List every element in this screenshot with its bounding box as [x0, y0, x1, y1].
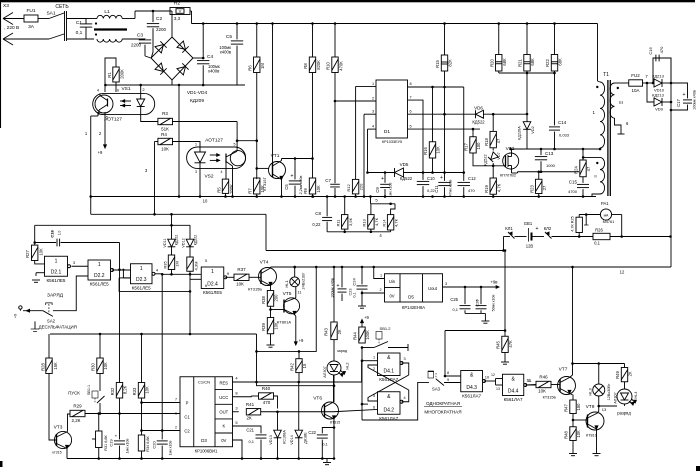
svg-text:3,9К: 3,9К: [348, 217, 353, 226]
svg-text:2: 2: [372, 97, 374, 101]
svg-text:OUT: OUT: [219, 410, 228, 415]
svg-text:R20: R20: [490, 58, 495, 66]
svg-text:1: 1: [211, 269, 214, 275]
svg-text:9: 9: [227, 271, 230, 276]
svg-text:КД226А: КД226А: [518, 126, 522, 140]
svg-text:L1: L1: [104, 9, 110, 15]
svg-text:R30: R30: [91, 362, 96, 370]
svg-text:&: &: [387, 355, 391, 361]
svg-text:470: 470: [263, 400, 271, 405]
svg-text:R2: R2: [174, 1, 180, 7]
svg-text:200К: 200К: [229, 184, 234, 194]
svg-text:R35: R35: [163, 261, 168, 269]
svg-text:470: 470: [468, 188, 475, 193]
svg-text:SA2: SA2: [47, 319, 56, 324]
svg-text:2200: 2200: [131, 43, 142, 48]
svg-text:VT6: VT6: [313, 396, 322, 402]
svg-text:1М: 1М: [175, 261, 180, 267]
svg-text:HL4: HL4: [634, 392, 638, 399]
svg-text:4,7К: 4,7К: [393, 218, 398, 227]
svg-text:R17: R17: [464, 142, 469, 150]
svg-text:VT1: VT1: [271, 153, 280, 159]
svg-text:КЛ2: КЛ2: [544, 226, 552, 231]
svg-text:VT3: VT3: [54, 425, 63, 431]
svg-text:200К: 200К: [120, 69, 125, 79]
svg-text:3А: 3А: [28, 24, 35, 30]
svg-text:68К: 68К: [558, 58, 563, 66]
svg-text:R46: R46: [539, 375, 548, 380]
svg-text:100: 100: [476, 142, 481, 150]
svg-text:C3: C3: [137, 33, 143, 39]
svg-text:0,1: 0,1: [452, 307, 458, 312]
svg-text:ДЕСУЛЬФАТАЦИЯ: ДЕСУЛЬФАТАЦИЯ: [39, 325, 77, 330]
svg-text:C9: C9: [375, 187, 380, 193]
svg-text:8: 8: [235, 391, 238, 396]
svg-text:АЛ307: АЛ307: [614, 392, 618, 403]
svg-text:ЗАРЯД: ЗАРЯД: [47, 293, 64, 299]
svg-text:1: 1: [85, 131, 88, 136]
svg-text:+9: +9: [98, 150, 103, 155]
svg-text:47мк х20в: 47мк х20в: [449, 180, 453, 197]
svg-text:кт315: кт315: [52, 451, 61, 455]
svg-text:VD14: VD14: [290, 435, 294, 445]
svg-text:R10: R10: [326, 61, 331, 69]
svg-text:КР1006ВИ1: КР1006ВИ1: [195, 449, 218, 454]
svg-text:R13: R13: [362, 219, 367, 227]
svg-text:+: +: [683, 92, 686, 98]
svg-text:UCC: UCC: [219, 395, 228, 400]
svg-text:V: V: [179, 9, 182, 14]
svg-text:5: 5: [106, 116, 108, 120]
svg-text:R3: R3: [162, 111, 168, 116]
svg-text:C25: C25: [450, 297, 458, 302]
svg-text:9: 9: [447, 378, 449, 382]
svg-text:13: 13: [496, 387, 500, 391]
svg-text:470К: 470К: [339, 61, 344, 71]
svg-text:R22: R22: [545, 58, 550, 66]
svg-text:4: 4: [156, 268, 159, 273]
svg-text:5: 5: [375, 198, 378, 203]
svg-text:SA1: SA1: [46, 11, 55, 17]
svg-text:R37: R37: [237, 267, 246, 272]
svg-text:R14: R14: [382, 220, 386, 227]
svg-text:C7: C7: [325, 178, 331, 183]
svg-text:6: 6: [409, 110, 411, 114]
svg-text:C19: C19: [109, 439, 114, 447]
svg-text:D2.2: D2.2: [94, 273, 105, 279]
svg-text:3: 3: [372, 110, 374, 114]
svg-text:3: 3: [73, 260, 76, 265]
svg-text:C1/CN: C1/CN: [198, 380, 210, 385]
svg-text:100К: 100К: [365, 330, 370, 340]
svg-text:R42: R42: [290, 362, 295, 370]
svg-text:VD6: VD6: [474, 106, 483, 111]
svg-text:27: 27: [542, 185, 547, 190]
svg-text:10К: 10К: [576, 430, 581, 438]
svg-text:2200: 2200: [156, 27, 167, 32]
svg-text:4: 4: [403, 396, 405, 400]
svg-text:К: К: [223, 424, 226, 429]
svg-text:КП707В2: КП707В2: [500, 174, 516, 178]
svg-text:4: 4: [235, 376, 238, 381]
svg-text:100мк х40в: 100мк х40в: [693, 90, 697, 110]
svg-text:0,033: 0,033: [559, 133, 570, 138]
svg-text:C4: C4: [207, 54, 213, 60]
svg-text:2К: 2К: [337, 329, 342, 334]
svg-text:C13: C13: [545, 151, 554, 156]
svg-text:х400в: х400в: [220, 50, 232, 55]
svg-text:C15: C15: [569, 180, 578, 185]
svg-text:HL2: HL2: [346, 363, 350, 370]
svg-text:VD2: VD2: [531, 126, 535, 133]
svg-text:D4.4: D4.4: [508, 389, 519, 395]
svg-text:К561ЛЕ5: К561ЛЕ5: [132, 285, 151, 290]
svg-text:М4761: М4761: [603, 220, 615, 224]
svg-text:0,1: 0,1: [594, 241, 600, 246]
svg-text:FU1: FU1: [26, 8, 35, 14]
svg-text:1: 1: [98, 262, 101, 268]
svg-text:5: 5: [205, 259, 207, 263]
svg-text:R16: R16: [423, 146, 428, 154]
svg-text:10К: 10К: [103, 362, 108, 370]
svg-text:II: II: [594, 174, 596, 179]
svg-text:4700: 4700: [568, 189, 578, 194]
svg-text:5: 5: [409, 125, 411, 129]
svg-text:10К: 10К: [236, 282, 244, 287]
svg-text:3,3: 3,3: [174, 16, 181, 21]
svg-text:2К: 2К: [246, 416, 252, 421]
svg-text:13: 13: [602, 407, 607, 412]
svg-text:КД522: КД522: [175, 235, 179, 246]
svg-text:7: 7: [409, 96, 411, 100]
svg-text:47К: 47К: [508, 340, 513, 348]
svg-text:0,1: 0,1: [76, 30, 83, 36]
svg-text:5: 5: [234, 143, 236, 147]
svg-text:SA3: SA3: [432, 387, 441, 392]
svg-text:47: 47: [496, 138, 501, 143]
svg-text:11: 11: [527, 378, 532, 383]
svg-text:C8: C8: [315, 211, 321, 216]
svg-text:R34 6,8К: R34 6,8К: [146, 435, 150, 451]
svg-text:C1: C1: [76, 20, 82, 26]
svg-text:R9: R9: [303, 188, 308, 194]
svg-text:1: 1: [373, 356, 375, 360]
svg-text:КД213: КД213: [652, 93, 664, 98]
svg-text:1: 1: [175, 412, 177, 416]
svg-text:VT9: VT9: [586, 404, 595, 410]
svg-text:4: 4: [372, 125, 374, 129]
svg-text:10: 10: [485, 375, 490, 380]
svg-text:1: 1: [372, 82, 374, 86]
svg-text:R6: R6: [248, 65, 253, 71]
svg-text:6: 6: [626, 121, 629, 126]
svg-text:+9: +9: [299, 338, 304, 343]
svg-text:КР142ЕН8А: КР142ЕН8А: [402, 305, 425, 310]
svg-text:HL1: HL1: [284, 280, 289, 288]
svg-text:КТ315Г: КТ315Г: [262, 176, 267, 190]
svg-text:R23: R23: [530, 184, 535, 192]
svg-text:ПУСК: ПУСК: [68, 391, 80, 396]
svg-text:470: 470: [659, 46, 664, 53]
svg-text:VD9: VD9: [655, 107, 664, 112]
svg-text:К561ЛЕ5: К561ЛЕ5: [47, 278, 66, 283]
svg-text:SB1:1: SB1:1: [87, 385, 91, 395]
svg-text:12: 12: [491, 373, 495, 377]
svg-text:4: 4: [221, 170, 223, 174]
svg-text:R12: R12: [346, 184, 351, 192]
svg-text:VT4: VT4: [260, 260, 269, 266]
svg-text:1: 1: [140, 266, 143, 272]
svg-text:0,22: 0,22: [312, 222, 321, 227]
svg-text:10К: 10К: [436, 146, 441, 154]
svg-text:+: +: [536, 226, 539, 232]
svg-text:VT7: VT7: [559, 367, 568, 373]
svg-text:+: +: [115, 434, 118, 439]
svg-text:D2.1: D2.1: [51, 269, 62, 275]
svg-text:2: 2: [99, 131, 102, 136]
svg-text:C5: C5: [226, 34, 232, 40]
svg-text:R27: R27: [25, 249, 30, 257]
svg-text:КД522: КД522: [472, 120, 485, 125]
svg-text:6: 6: [373, 406, 375, 410]
svg-text:R4: R4: [161, 132, 167, 137]
svg-text:D4.2: D4.2: [383, 407, 394, 413]
svg-text:КД522: КД522: [194, 235, 198, 246]
svg-text:8,2К: 8,2К: [123, 385, 128, 394]
svg-text:КТ801А: КТ801А: [277, 320, 291, 325]
svg-text:VD1-VD4: VD1-VD4: [187, 90, 208, 96]
svg-text:R26: R26: [595, 228, 603, 233]
svg-text:3: 3: [145, 168, 148, 173]
svg-text:ОДНОКРАТНАЯ: ОДНОКРАТНАЯ: [426, 401, 460, 406]
svg-text:1мк х10в: 1мк х10в: [126, 439, 130, 454]
svg-text:220: 220: [359, 183, 364, 190]
svg-text:C17: C17: [676, 98, 681, 106]
svg-text:50мк х10в: 50мк х10в: [492, 295, 496, 312]
svg-text:+: +: [476, 298, 479, 303]
svg-text:R38: R38: [261, 295, 266, 303]
svg-text:6: 6: [205, 284, 207, 288]
svg-text:VS1: VS1: [121, 86, 130, 92]
svg-text:3: 3: [235, 406, 238, 411]
svg-text:R5: R5: [217, 187, 222, 193]
svg-text:1мк х16в: 1мк х16в: [389, 183, 393, 198]
svg-text:заряд: заряд: [337, 349, 348, 353]
svg-text:82К: 82К: [448, 59, 453, 67]
svg-text:C22: C22: [308, 430, 316, 435]
svg-text:+: +: [291, 174, 294, 180]
svg-text:10К: 10К: [538, 389, 546, 394]
svg-text:разряд: разряд: [617, 411, 631, 416]
svg-text:HL3: HL3: [588, 388, 593, 396]
svg-text:C2: C2: [156, 16, 162, 22]
svg-text:КД209: КД209: [190, 98, 204, 104]
svg-text:КД213: КД213: [652, 74, 664, 79]
svg-text:R33: R33: [132, 387, 137, 395]
svg-text:VD13: VD13: [269, 435, 273, 445]
svg-text:3: 3: [403, 357, 405, 361]
svg-text:+9: +9: [14, 314, 18, 318]
svg-text:R1: R1: [107, 72, 112, 78]
svg-text:R29: R29: [73, 404, 82, 409]
svg-text:D5: D5: [408, 295, 414, 300]
svg-text:КД522: КД522: [484, 154, 488, 165]
svg-text:R21: R21: [518, 58, 523, 66]
svg-text:5: 5: [235, 420, 238, 425]
svg-text:СЕТЬ: СЕТЬ: [55, 4, 69, 10]
svg-text:C2: C2: [184, 429, 190, 434]
svg-text:1: 1: [592, 110, 595, 115]
svg-text:1: 1: [55, 258, 58, 264]
svg-text:D2.3: D2.3: [136, 277, 147, 283]
svg-text:C6: C6: [284, 184, 289, 190]
svg-text:10К: 10К: [39, 248, 44, 256]
svg-text:Uout: Uout: [428, 286, 438, 291]
svg-text:4,7К: 4,7К: [497, 183, 502, 192]
svg-text:&: &: [511, 376, 515, 382]
svg-text:КТ315: КТ315: [330, 421, 340, 425]
svg-text:МНОГОКРАТНАЯ: МНОГОКРАТНАЯ: [424, 410, 461, 415]
svg-text:R45: R45: [496, 340, 501, 348]
svg-text:RES: RES: [219, 381, 228, 386]
svg-text:6: 6: [117, 89, 119, 93]
svg-text:D4.1: D4.1: [383, 369, 394, 375]
svg-text:R31 6,8К: R31 6,8К: [104, 434, 108, 450]
svg-text:4: 4: [379, 233, 382, 238]
svg-text:12В: 12В: [526, 244, 534, 249]
svg-text:4,7К: 4,7К: [374, 217, 379, 226]
svg-text:VD12: VD12: [182, 238, 186, 248]
svg-text:GB1: GB1: [524, 221, 533, 226]
svg-text:+9в: +9в: [491, 280, 499, 285]
svg-text:R19: R19: [484, 184, 489, 192]
svg-text:150: 150: [576, 403, 581, 411]
svg-text:R44: R44: [353, 331, 358, 339]
svg-text:VD11: VD11: [163, 238, 167, 247]
svg-text:C11: C11: [434, 185, 439, 193]
svg-text:C21: C21: [246, 428, 254, 433]
svg-text:Т1: Т1: [603, 72, 609, 78]
svg-text:15К: 15К: [53, 362, 58, 370]
svg-text:АОТ127: АОТ127: [205, 138, 223, 144]
svg-text:R18: R18: [484, 137, 489, 145]
svg-text:АЛ307: АЛ307: [323, 366, 327, 377]
svg-text:1мк х10в: 1мк х10в: [169, 441, 173, 456]
svg-text:КЛ1: КЛ1: [505, 226, 513, 231]
svg-text:D4.3: D4.3: [466, 385, 477, 391]
svg-text:10К: 10К: [145, 386, 150, 394]
svg-text:К561ЛЕ5: К561ЛЕ5: [90, 282, 109, 287]
svg-text:&: &: [470, 373, 474, 379]
svg-text:КД522: КД522: [400, 176, 413, 181]
svg-text:+9: +9: [364, 315, 369, 320]
svg-text:10А: 10А: [631, 88, 639, 93]
svg-text:X3: X3: [3, 3, 9, 9]
svg-text:0,1: 0,1: [353, 292, 357, 297]
svg-text:D2.4: D2.4: [207, 282, 218, 288]
svg-text:C16: C16: [648, 47, 653, 55]
svg-text:+: +: [381, 176, 384, 182]
svg-text:2: 2: [175, 426, 177, 430]
svg-text:VD5: VD5: [400, 162, 409, 167]
svg-text:КР1033ЕУ5: КР1033ЕУ5: [382, 140, 402, 144]
svg-text:КТ315Б: КТ315Б: [543, 396, 557, 400]
svg-text:68К: 68К: [530, 58, 535, 66]
svg-text:10К: 10К: [161, 147, 169, 152]
svg-text:х400в: х400в: [208, 69, 220, 74]
svg-text:&: &: [387, 394, 391, 400]
svg-text:III: III: [619, 100, 623, 105]
svg-text:R43: R43: [324, 327, 329, 335]
svg-text:2: 2: [379, 288, 381, 292]
svg-text:4,3М: 4,3М: [194, 262, 199, 271]
svg-text:8: 8: [409, 82, 411, 86]
svg-text:D3: D3: [201, 438, 207, 443]
svg-text:12: 12: [620, 270, 625, 275]
svg-text:R24: R24: [574, 165, 579, 173]
svg-text:0,1: 0,1: [248, 439, 254, 444]
svg-text:7: 7: [175, 398, 177, 402]
svg-text:D1: D1: [384, 129, 390, 135]
svg-text:мА: мА: [604, 214, 609, 218]
svg-text:+: +: [440, 175, 443, 181]
svg-text:К561ЛА7: К561ЛА7: [379, 416, 398, 421]
svg-text:10: 10: [203, 199, 208, 204]
svg-text:2,2К: 2,2К: [72, 418, 81, 423]
svg-text:К561ЛЕ5: К561ЛЕ5: [203, 290, 222, 295]
svg-text:0,1: 0,1: [322, 442, 328, 447]
svg-text:7: 7: [645, 74, 648, 79]
svg-text:КС168А: КС168А: [283, 430, 287, 444]
svg-text:+: +: [337, 283, 340, 289]
svg-text:R39: R39: [261, 322, 266, 330]
svg-text:2К: 2К: [628, 371, 633, 376]
svg-text:C20: C20: [152, 441, 157, 449]
svg-text:R40: R40: [262, 386, 271, 391]
svg-text:1: 1: [195, 143, 197, 147]
svg-text:С18: С18: [50, 230, 55, 238]
svg-text:R49: R49: [615, 370, 620, 378]
svg-text:Д818Е: Д818Е: [304, 432, 308, 444]
svg-text:КТ315Б: КТ315Б: [248, 287, 262, 292]
svg-text:3: 3: [445, 282, 447, 286]
svg-text:R41: R41: [246, 402, 255, 407]
svg-text:4: 4: [97, 89, 99, 93]
svg-text:РА1: РА1: [601, 201, 609, 206]
svg-text:FU2: FU2: [631, 73, 640, 78]
svg-text:12Вх30Вт: 12Вх30Вт: [607, 383, 611, 400]
svg-text:VT5: VT5: [283, 291, 292, 297]
svg-text:C1: C1: [184, 415, 190, 420]
svg-text:8: 8: [447, 371, 449, 375]
svg-text:R11: R11: [336, 219, 341, 227]
svg-text:C14: C14: [558, 120, 567, 125]
svg-text:R8: R8: [303, 63, 308, 69]
svg-text:4,7К R25: 4,7К R25: [571, 216, 575, 232]
svg-text:С24: С24: [352, 278, 357, 286]
svg-text:68К: 68К: [502, 58, 507, 66]
svg-text:2: 2: [142, 87, 145, 92]
svg-text:, 220 В: , 220 В: [4, 25, 19, 31]
svg-text:47: 47: [586, 166, 591, 171]
svg-text:10К: 10К: [316, 185, 321, 193]
svg-text:0V: 0V: [389, 294, 394, 299]
svg-text:R32: R32: [110, 387, 115, 395]
svg-text:VD7: VD7: [497, 152, 501, 159]
svg-text:К561ЛА7: К561ЛА7: [462, 393, 481, 398]
svg-text:R48: R48: [564, 430, 569, 438]
svg-text:24Вх21Вт: 24Вх21Вт: [302, 272, 306, 289]
